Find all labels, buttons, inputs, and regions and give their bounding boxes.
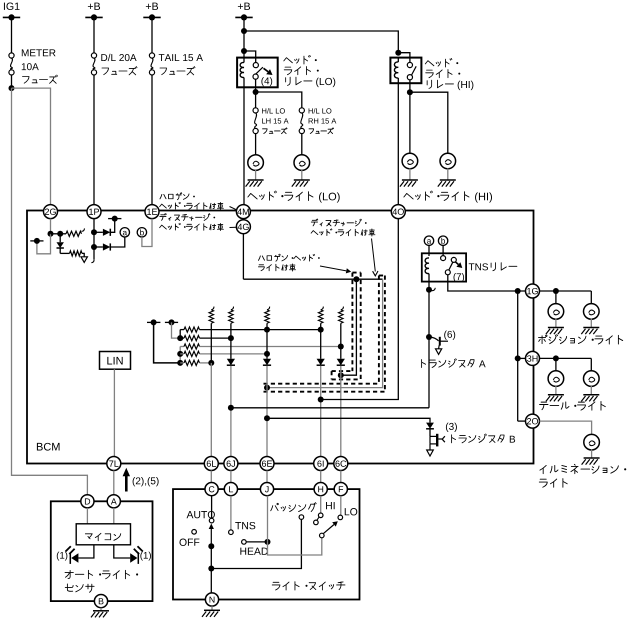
- dashed tube inner (halogen): [351, 273, 353, 372]
- node LO lamp branch: [253, 89, 259, 95]
- node 1P junction 2: [91, 244, 97, 250]
- wire 6C to F: [340, 471, 342, 483]
- lamp tail LH: [548, 371, 564, 387]
- TNS coil: [425, 258, 429, 274]
- lamp position RH: [584, 304, 600, 320]
- resistor R10 column 6E: [267, 307, 270, 310]
- pin J: [260, 483, 273, 496]
- label tail light: [540, 402, 548, 410]
- pin 6J: [224, 457, 238, 471]
- node row4 left: [177, 351, 183, 357]
- resistor R8 column 6L: [211, 307, 214, 310]
- wire branch to RH lamp: [256, 92, 302, 108]
- wire row4 to 6E: [200, 353, 268, 355]
- wire D to microcomputer: [86, 508, 88, 524]
- diode D2 internal: [94, 231, 103, 233]
- ground light switch: [204, 609, 220, 611]
- wire 6J column lower: [230, 366, 232, 457]
- node passing branch: [208, 566, 214, 572]
- node 6E tap (transistor B line): [264, 415, 270, 421]
- lamp head-light LO RH: [294, 155, 310, 171]
- node HI lamp branch: [407, 89, 413, 95]
- wire bus to 2O: [518, 420, 526, 422]
- resistor R3 row1: [180, 329, 184, 331]
- wire lamp to ground: [447, 168, 449, 179]
- wire LH fuse to lamp: [255, 134, 257, 156]
- wire 6C column lower: [340, 366, 342, 457]
- wire 4O to 6I tap: [321, 219, 399, 400]
- pin 3H: [526, 351, 540, 365]
- terminal +B (TAIL): [146, 4, 151, 9]
- bus TNS output down right side: [517, 291, 519, 421]
- arrow (2),(5) LIN signal: [125, 476, 128, 492]
- contact HEAD: [242, 540, 247, 545]
- pin D: [81, 495, 94, 508]
- node row5-6L: [208, 360, 214, 366]
- wire 6I column upper: [320, 323, 322, 359]
- node row2-6J: [228, 335, 234, 341]
- joint b (right): [438, 236, 447, 245]
- pin 2O: [526, 414, 540, 428]
- node row4-6E: [264, 351, 270, 357]
- open arrow below R2: [81, 257, 87, 263]
- joint a (right): [424, 236, 433, 245]
- contact dimmer common: [320, 533, 325, 538]
- contact HI upper: [318, 513, 323, 518]
- wire 6I column lower: [320, 366, 322, 457]
- pin F: [334, 483, 347, 496]
- wire row3 to 6C: [200, 346, 341, 348]
- wire lamp to ground: [590, 319, 592, 327]
- node bus-3H: [515, 355, 521, 361]
- contact AUTO: [209, 518, 214, 523]
- selector arm: [210, 527, 212, 546]
- wire 1G to position lamps: [540, 290, 592, 292]
- resistor R9 column 6J: [231, 307, 234, 310]
- wire J down to dimmer common: [267, 496, 269, 542]
- node bar marker: [112, 216, 118, 222]
- contact passing: [299, 515, 304, 520]
- link HI contacts: [317, 517, 319, 520]
- wire lamp to ground: [590, 386, 592, 394]
- dashed tube outer (discharge): [378, 276, 380, 384]
- wire to LH position lamp: [555, 291, 557, 304]
- wire 3H to tail lamps: [540, 357, 592, 359]
- wire row1-row2 left link: [179, 330, 181, 339]
- wire 2G internal: [50, 219, 52, 234]
- node 6I tap (4O line): [318, 397, 324, 403]
- lamp position LH: [548, 304, 564, 320]
- photodiode right: [130, 553, 137, 563]
- wire L to TNS contact: [230, 496, 232, 530]
- auto-light sensor box: [51, 501, 153, 601]
- wire +B to D/L fuse: [93, 17, 95, 53]
- wire U-link to tap: [37, 234, 51, 254]
- wire METER fuse to junction: [11, 75, 13, 88]
- pin A: [107, 495, 120, 508]
- label halogen cars (points at 4M): [160, 194, 166, 198]
- hook 1P end: [91, 259, 94, 262]
- transistor B (FET): [430, 435, 436, 437]
- node 6J tap: [228, 405, 234, 411]
- label transistor B: [452, 435, 456, 443]
- node TNS coil junction with hook: [426, 287, 432, 293]
- wire branch to LO relay contact: [244, 51, 256, 63]
- node +B branch to HI relay: [241, 28, 247, 34]
- wire a to TNS coil: [428, 245, 430, 256]
- node 1P junction 1: [91, 229, 97, 235]
- pin 6E: [260, 457, 274, 471]
- resistor R5 row3: [180, 346, 184, 348]
- wire tap B down to row2: [172, 322, 181, 338]
- pin 2G: [44, 205, 58, 219]
- pin 4G: [236, 220, 250, 234]
- fuse METER 10A: [9, 53, 14, 58]
- node +B branch to LO contact: [241, 48, 247, 54]
- pin 6C: [334, 457, 348, 471]
- pin 4M: [236, 205, 250, 219]
- lamp tail RH: [584, 371, 600, 387]
- wire 6E column lower: [266, 366, 268, 457]
- relay U1 head-light relay (LO): [237, 58, 278, 88]
- label illumination light: [540, 465, 546, 473]
- wire branch to HI relay contact: [398, 53, 410, 63]
- resistor R7 row5: [180, 362, 184, 364]
- wire discharge path to 6E column: [267, 279, 383, 387]
- label relay HI name: [425, 61, 434, 66]
- ground position RH: [583, 327, 599, 329]
- wire 6E tap to transistor B: [267, 418, 430, 422]
- fuse D/L 20A: [91, 53, 96, 58]
- wire TNS contact output to 1G: [448, 275, 526, 291]
- pin 1E: [145, 205, 159, 219]
- diode D8 above transistor B: [426, 423, 434, 429]
- node halogen path joins 6C: [338, 372, 344, 378]
- wire 6J column upper: [230, 323, 232, 359]
- lamp head-light HI RH: [440, 153, 456, 169]
- node 2G junction 2: [57, 231, 63, 237]
- photodiode left: [71, 553, 78, 563]
- label discharge cars (points at 4G): [160, 214, 166, 221]
- label TNS relay: [469, 263, 475, 270]
- wire D3 to joint a: [110, 237, 125, 247]
- ground HI RH lamp: [440, 179, 456, 181]
- wire IG1 to METER fuse: [11, 17, 13, 53]
- wire lamp to ground: [555, 319, 557, 327]
- wire +B to TAIL fuse: [151, 17, 153, 53]
- contact LO: [338, 515, 343, 520]
- node row2 left: [177, 335, 183, 341]
- wire F to LO contact: [340, 496, 342, 516]
- diode D6 column 6I: [317, 359, 325, 365]
- pin L: [224, 483, 237, 496]
- transistor A: [426, 334, 432, 340]
- ground position LH: [548, 327, 564, 329]
- ground RH lamp LO: [294, 179, 310, 181]
- relay HI coil: [397, 58, 399, 62]
- label head-light (LO): [248, 193, 257, 199]
- light switch box: [173, 489, 360, 599]
- ground illumination: [584, 457, 600, 459]
- node 2G junction 1: [48, 231, 54, 237]
- node selector pivot: [208, 543, 214, 549]
- pin B: [94, 595, 107, 608]
- label halogen cars (points at tube): [258, 256, 264, 260]
- fuse H/L LO RH 15A: [299, 108, 304, 113]
- pin 1G: [526, 284, 540, 298]
- wire row2 to 6J: [200, 337, 231, 339]
- pin 6I: [314, 457, 328, 471]
- relay U2 head-light relay (HI): [390, 58, 421, 84]
- diode D7 column 6C: [337, 359, 345, 365]
- TNS contact: [441, 256, 446, 261]
- wire LIN to 7L: [113, 369, 115, 456]
- resistor R2 internal: [60, 252, 69, 254]
- wire 6L to C: [210, 471, 212, 483]
- resistor R12 column 6C: [341, 307, 344, 310]
- wire microcomputer to right photodiode: [114, 545, 130, 558]
- wire RH fuse to lamp: [301, 134, 303, 156]
- wire joint b to 1E: [142, 219, 152, 247]
- wire microcomputer to left photodiode: [78, 545, 94, 558]
- fuse TAIL 15A: [149, 53, 154, 58]
- resistor R11 column 6I: [321, 307, 324, 310]
- ground LH lamp LO: [248, 179, 264, 181]
- wire 6L column: [210, 323, 212, 363]
- wire D2 to bar node: [110, 219, 114, 233]
- diode D4 column 6J: [227, 359, 235, 365]
- node row1-6E: [264, 327, 270, 333]
- wire passing branch: [211, 519, 301, 568]
- wire junction to BCM pin 2G: [12, 88, 51, 205]
- wire to HI LH lamp: [409, 92, 411, 154]
- wire row5 to 6L: [200, 362, 212, 364]
- wire b to TNS contact: [442, 245, 444, 255]
- joint a (left): [120, 228, 129, 237]
- wire to LH fuse: [255, 92, 257, 108]
- label relay LO name: [284, 58, 293, 63]
- diode D5 column 6E: [263, 359, 271, 365]
- wire lamp to ground: [591, 450, 593, 458]
- microcomputer box: [76, 524, 130, 545]
- node bus top: [515, 288, 521, 294]
- node IG1 junction: [9, 85, 15, 91]
- contact OFF: [192, 530, 197, 535]
- wire +B to relay HI: [244, 31, 398, 53]
- wire N to ground: [211, 606, 213, 610]
- label position light: [539, 335, 548, 344]
- relay HI contact: [407, 62, 412, 67]
- node row3-6C: [338, 344, 344, 350]
- wire to RH position lamp: [590, 291, 592, 304]
- terminal IG1: [3, 3, 6, 10]
- diode D1 internal: [59, 234, 61, 242]
- wire bus to 3H: [518, 357, 526, 359]
- wire A to microcomputer: [113, 508, 115, 524]
- relay U3 TNS relay box: [422, 253, 466, 281]
- node discharge path joins 6E: [264, 385, 270, 391]
- contact TNS: [229, 530, 234, 535]
- pin 6L: [204, 457, 218, 471]
- node ladder tap A with bar: [151, 319, 157, 325]
- ground tail LH: [548, 394, 564, 396]
- node HI coil top: [395, 50, 401, 56]
- wire 6E column upper: [266, 323, 268, 359]
- wire lamp to ground: [555, 386, 557, 394]
- lamp illumination: [584, 434, 600, 450]
- wire 6I to H: [320, 471, 322, 483]
- wire 6E to J: [266, 471, 268, 483]
- wire C to AUTO contact: [211, 496, 213, 519]
- pin 7L: [107, 457, 121, 471]
- lamp head-light LO LH: [248, 155, 264, 171]
- wire IG1 feed down to sensor D: [12, 88, 88, 495]
- wire tap A down to row5: [154, 322, 181, 363]
- wire +B down to relay LO coil and BCM 4M: [243, 17, 245, 57]
- wire halogen path to 6C column: [341, 279, 357, 375]
- node tap with bar: [34, 238, 40, 244]
- label transistor A: [422, 360, 426, 368]
- wire TNS coil down to transistor A and 6J: [428, 282, 430, 290]
- label discharge cars (points at tube): [311, 219, 317, 226]
- joint b (left): [137, 228, 146, 237]
- wire 2O to illumination lamp: [540, 421, 592, 435]
- resistor R4 row2: [180, 337, 184, 339]
- contact HI lower: [314, 520, 319, 525]
- resistor R6 row4: [180, 353, 184, 355]
- pin C: [205, 483, 218, 496]
- fuse H/L LO LH 15A: [253, 108, 258, 113]
- label head-light (HI): [404, 193, 413, 199]
- wire TAIL fuse to BCM pin 1E: [151, 75, 153, 205]
- wire HEAD to J node: [246, 541, 267, 543]
- wire pivot to N: [210, 546, 212, 593]
- wire rows3-5 left link: [179, 347, 181, 363]
- label light switch: [272, 582, 280, 590]
- node tail lamp branch: [553, 355, 559, 361]
- wire to LH tail lamp: [555, 358, 557, 371]
- wire HI contact output: [409, 80, 411, 92]
- node halogen branch: [353, 276, 359, 282]
- pin 4O: [391, 205, 405, 219]
- relay LO contact: [253, 63, 258, 68]
- ground HI LH lamp: [402, 179, 418, 181]
- wire 1P internal: [93, 219, 95, 260]
- node position lamp branch: [553, 288, 559, 294]
- wire lamp to ground: [409, 168, 411, 179]
- pin H: [314, 483, 327, 496]
- wire to RH tail lamp: [590, 358, 592, 371]
- terminal +B (headlight relays): [238, 4, 243, 9]
- wire 6J to L: [230, 471, 232, 483]
- dimmer arm to LO: [323, 525, 334, 534]
- node ladder tap B with bar: [169, 319, 175, 325]
- relay LO coil: [243, 58, 245, 63]
- wire row1 to 6I: [200, 329, 321, 331]
- wire branch to HI RH lamp: [410, 92, 448, 154]
- ground sensor: [93, 610, 109, 612]
- node J-HEAD: [265, 539, 271, 545]
- resistor R1 internal: [60, 233, 66, 235]
- wire 7L to sensor A: [113, 471, 115, 495]
- label auto light sensor: [65, 570, 73, 578]
- wire lamp to ground: [301, 170, 303, 180]
- LIN box: [100, 352, 131, 370]
- lamp head-light HI LH: [402, 153, 418, 169]
- node row1-6I: [318, 327, 324, 333]
- node row5 left: [177, 360, 183, 366]
- wire 6C column upper: [340, 323, 342, 359]
- diode D3 internal: [94, 246, 103, 248]
- ground tail RH: [583, 394, 599, 396]
- wire lamp to ground: [255, 170, 257, 180]
- BCM box: [27, 211, 534, 464]
- wire H to HI contact: [320, 496, 322, 513]
- pin N: [205, 593, 218, 606]
- wire B to ground: [100, 608, 102, 611]
- pin 1P: [87, 205, 101, 219]
- wire LO contact output: [255, 79, 257, 92]
- wire D/L fuse to BCM pin 1P: [93, 75, 95, 205]
- wire HI coil to BCM 4O: [397, 83, 399, 205]
- wire 4G output: [242, 234, 244, 280]
- terminal +B (D/L): [88, 4, 93, 9]
